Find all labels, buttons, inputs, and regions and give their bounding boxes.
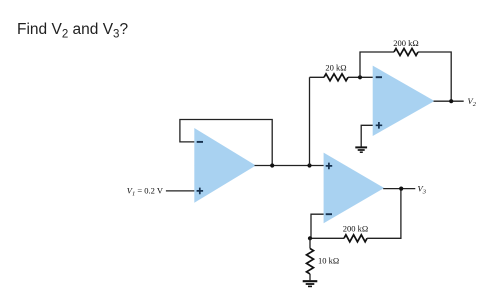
svg-text:200 kΩ: 200 kΩ [343,223,368,233]
wire U2 output to V2 [434,100,464,102]
svg-text:20 kΩ: 20 kΩ [325,63,346,73]
op-amp U2 plus pin marker [376,122,383,129]
node branch junction to 20k [307,163,311,167]
wire 10k branch down [309,238,311,280]
op-amp U1 plus pin marker [197,188,204,195]
wire 20k input row [310,76,373,78]
op-amp U1 minus pin marker [197,141,203,143]
ground (bottom) [303,281,318,286]
wire U3 output to V3 [383,188,415,190]
resistor 200 kOhm feedback U2 [394,49,418,56]
wire U1 feedback loop [180,120,272,166]
wire U3 minus input lead [311,214,324,238]
wire V1 source lead to U1 plus input [166,190,194,192]
svg-text:200 kΩ: 200 kΩ [393,38,418,48]
ground (U2 plus input) [355,147,367,152]
wire U2 plus input to ground [361,125,373,146]
svg-text:10 kΩ: 10 kΩ [318,255,339,265]
op-amp U1 (buffer, left) [194,128,256,203]
op-amp U2 minus pin marker [376,76,382,78]
svg-text:Find V2 and V3?: Find V2 and V3? [17,21,128,41]
op-amp U3 plus pin marker [326,163,333,170]
node bottom junction [308,236,312,240]
wire bottom feedback row [310,189,401,239]
resistor 10 kOhm [307,249,314,274]
wire U1 output to U3 plus input [255,165,324,167]
wire branch up to 20k resistor row [309,77,311,165]
resistor 200 kOhm feedback U3 [344,235,367,242]
wire U2 feedback loop [360,52,451,101]
node 20k/feedback junction [358,75,362,79]
node U1 output junction [270,163,274,167]
node U2 output junction [449,99,453,103]
op-amp U2 (top right) [373,66,435,136]
node U3 output junction [399,187,403,191]
op-amp U3 minus pin marker [326,213,332,215]
op-amp U3 (bottom middle) [324,153,385,224]
resistor 20 kOhm [324,74,348,81]
